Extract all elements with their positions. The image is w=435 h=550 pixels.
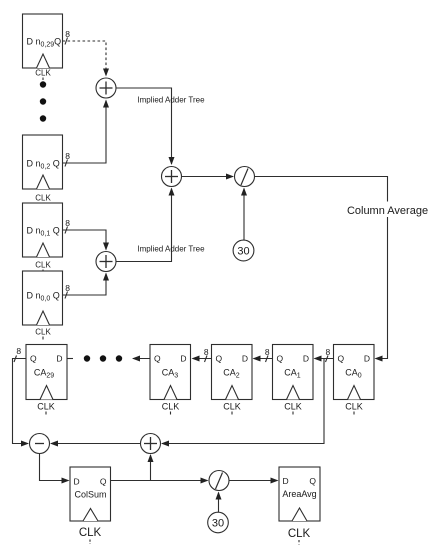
adder A1 bbox=[96, 78, 116, 98]
divider U1 (/) bbox=[235, 167, 255, 187]
svg-text:D: D bbox=[303, 354, 309, 364]
svg-text:D: D bbox=[180, 354, 186, 364]
svg-text:CLK: CLK bbox=[35, 328, 51, 337]
register ColSum bbox=[70, 467, 111, 544]
bus width 8 label (n0,1) bbox=[65, 218, 70, 234]
svg-text:CLK: CLK bbox=[345, 402, 363, 412]
svg-text:CLK: CLK bbox=[223, 402, 241, 412]
svg-text:ColSum: ColSum bbox=[74, 490, 106, 500]
adder A3 bbox=[162, 167, 182, 187]
register n0,2 bbox=[23, 135, 63, 205]
bus width 8 label (CA29 Q) bbox=[14, 346, 21, 362]
wire adder A1 to adder A3 bbox=[116, 88, 172, 164]
wire ColSum Q tap up to adder A4 bbox=[150, 455, 152, 481]
ellipsis dots left column bbox=[40, 81, 46, 121]
svg-text:CLK: CLK bbox=[37, 402, 55, 412]
svg-text:CLK: CLK bbox=[35, 261, 51, 270]
svg-text:30: 30 bbox=[212, 518, 224, 530]
adder A2 bbox=[96, 252, 116, 272]
wire CA0 Q to CA1 D bbox=[315, 358, 334, 360]
wire divider U1 to CA0 D (column average feedback) bbox=[255, 177, 388, 359]
register n0,29 bbox=[23, 14, 63, 80]
wire n0,1 Q to adder A2 bbox=[63, 230, 107, 250]
svg-text:8: 8 bbox=[326, 347, 331, 357]
svg-text:AreaAvg: AreaAvg bbox=[282, 489, 316, 499]
svg-text:CLK: CLK bbox=[79, 527, 102, 539]
svg-text:Column Average: Column Average bbox=[347, 205, 428, 217]
bus width 8 label (n0,2) bbox=[65, 151, 70, 167]
svg-text:CLK: CLK bbox=[35, 194, 51, 203]
bus width 8 label (CA2-CA1) bbox=[265, 347, 270, 362]
register CA3 bbox=[150, 345, 191, 415]
wire n0,0 Q to adder A2 bbox=[63, 274, 107, 296]
wire CA1 Q to CA2 D bbox=[254, 358, 273, 360]
svg-text:D: D bbox=[242, 354, 248, 364]
register CA29 bbox=[26, 345, 67, 415]
svg-text:D: D bbox=[74, 477, 80, 487]
svg-text:Q: Q bbox=[277, 354, 284, 364]
svg-text:CLK: CLK bbox=[35, 69, 51, 78]
wire adder A3 to divider U1 bbox=[182, 176, 234, 178]
register CA0 bbox=[334, 345, 375, 415]
wire subtractor S1 to ColSum D bbox=[40, 454, 69, 481]
bus width 8 label (n0,0) bbox=[65, 283, 70, 299]
divider U2 (/) bbox=[209, 471, 229, 491]
svg-text:Q: Q bbox=[30, 354, 37, 364]
bus width 8 label (n0,29) bbox=[65, 29, 70, 45]
wire ColSum Q to divider U2 bbox=[111, 480, 208, 482]
svg-text:Q: Q bbox=[216, 354, 223, 364]
stub CA29 D bbox=[67, 358, 73, 360]
wire divider U2 to AreaAvg D bbox=[229, 480, 278, 482]
wire constant 30 to divider U1 bbox=[243, 189, 245, 241]
constant 30 (column) bbox=[233, 240, 254, 261]
wire CA29 Q to subtractor S1 bbox=[13, 359, 29, 444]
wire n0,2 Q to adder A1 bbox=[63, 101, 107, 164]
svg-text:Implied Adder Tree: Implied Adder Tree bbox=[137, 245, 205, 254]
register CA1 bbox=[273, 345, 314, 415]
svg-text:8: 8 bbox=[65, 29, 70, 39]
svg-text:D: D bbox=[56, 354, 62, 364]
svg-text:30: 30 bbox=[237, 246, 249, 258]
ellipsis dots CA row bbox=[84, 355, 122, 361]
adder A4 (+) bbox=[141, 434, 161, 454]
svg-text:Q: Q bbox=[100, 477, 107, 487]
wire adder A4 to subtractor S1 bbox=[51, 443, 141, 445]
bus width 8 label (CA1-CA0) bbox=[326, 347, 331, 362]
register n0,1 bbox=[23, 203, 63, 271]
svg-text:8: 8 bbox=[65, 151, 70, 161]
register AreaAvg bbox=[279, 467, 320, 545]
wire adder A2 to adder A3 bbox=[116, 189, 172, 262]
svg-text:Q: Q bbox=[309, 476, 316, 486]
wire constant 30 to divider U2 bbox=[218, 493, 220, 513]
register CA2 bbox=[212, 345, 253, 415]
svg-text:CLK: CLK bbox=[288, 528, 311, 540]
svg-text:D: D bbox=[364, 354, 370, 364]
svg-text:Implied Adder Tree: Implied Adder Tree bbox=[137, 96, 205, 105]
svg-text:CLK: CLK bbox=[162, 402, 180, 412]
wire CA2 Q to CA3 D bbox=[193, 358, 212, 360]
wire n0,29 Q to adder A1 (dashed) bbox=[63, 41, 107, 76]
svg-text:8: 8 bbox=[16, 346, 21, 356]
constant 30 (area) bbox=[208, 512, 229, 533]
wire CA0 tap to adder A4 bbox=[162, 359, 324, 444]
bus width 8 label (CA3-CA2) bbox=[204, 347, 209, 362]
svg-text:8: 8 bbox=[65, 218, 70, 228]
svg-text:D: D bbox=[283, 476, 289, 486]
svg-text:CLK: CLK bbox=[284, 402, 302, 412]
wire CA3 Q to dots bbox=[133, 358, 150, 360]
svg-text:Q: Q bbox=[154, 354, 161, 364]
label Column Average bbox=[346, 202, 430, 218]
subtractor S1 (-) bbox=[30, 434, 50, 454]
svg-text:8: 8 bbox=[65, 283, 70, 293]
svg-text:Q: Q bbox=[338, 354, 345, 364]
register n0,0 bbox=[23, 271, 63, 340]
